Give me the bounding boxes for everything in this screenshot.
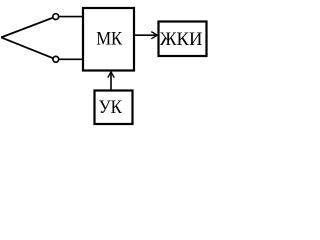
wire bottom bubble to MK bbox=[56, 58, 83, 60]
svg-text:ЖКИ: ЖКИ bbox=[160, 29, 203, 49]
block UK bbox=[95, 91, 133, 125]
arrowhead to ZhKI bbox=[151, 32, 157, 39]
contact bubble bottom bbox=[53, 56, 59, 62]
wire top electrode lead bbox=[1, 17, 56, 38]
wire bottom electrode lead bbox=[1, 37, 56, 59]
contact bubble top bbox=[53, 14, 59, 20]
wire UK to MK arrow shaft bbox=[110, 73, 112, 91]
svg-text:УК: УК bbox=[99, 97, 123, 117]
svg-text:МК: МК bbox=[96, 29, 123, 49]
block MK bbox=[83, 8, 134, 71]
arrowhead to MK bbox=[108, 72, 114, 78]
wire top bubble to MK bbox=[56, 16, 83, 18]
wire MK to ZhKI arrow shaft bbox=[134, 34, 157, 36]
block ZhKI bbox=[159, 22, 207, 57]
